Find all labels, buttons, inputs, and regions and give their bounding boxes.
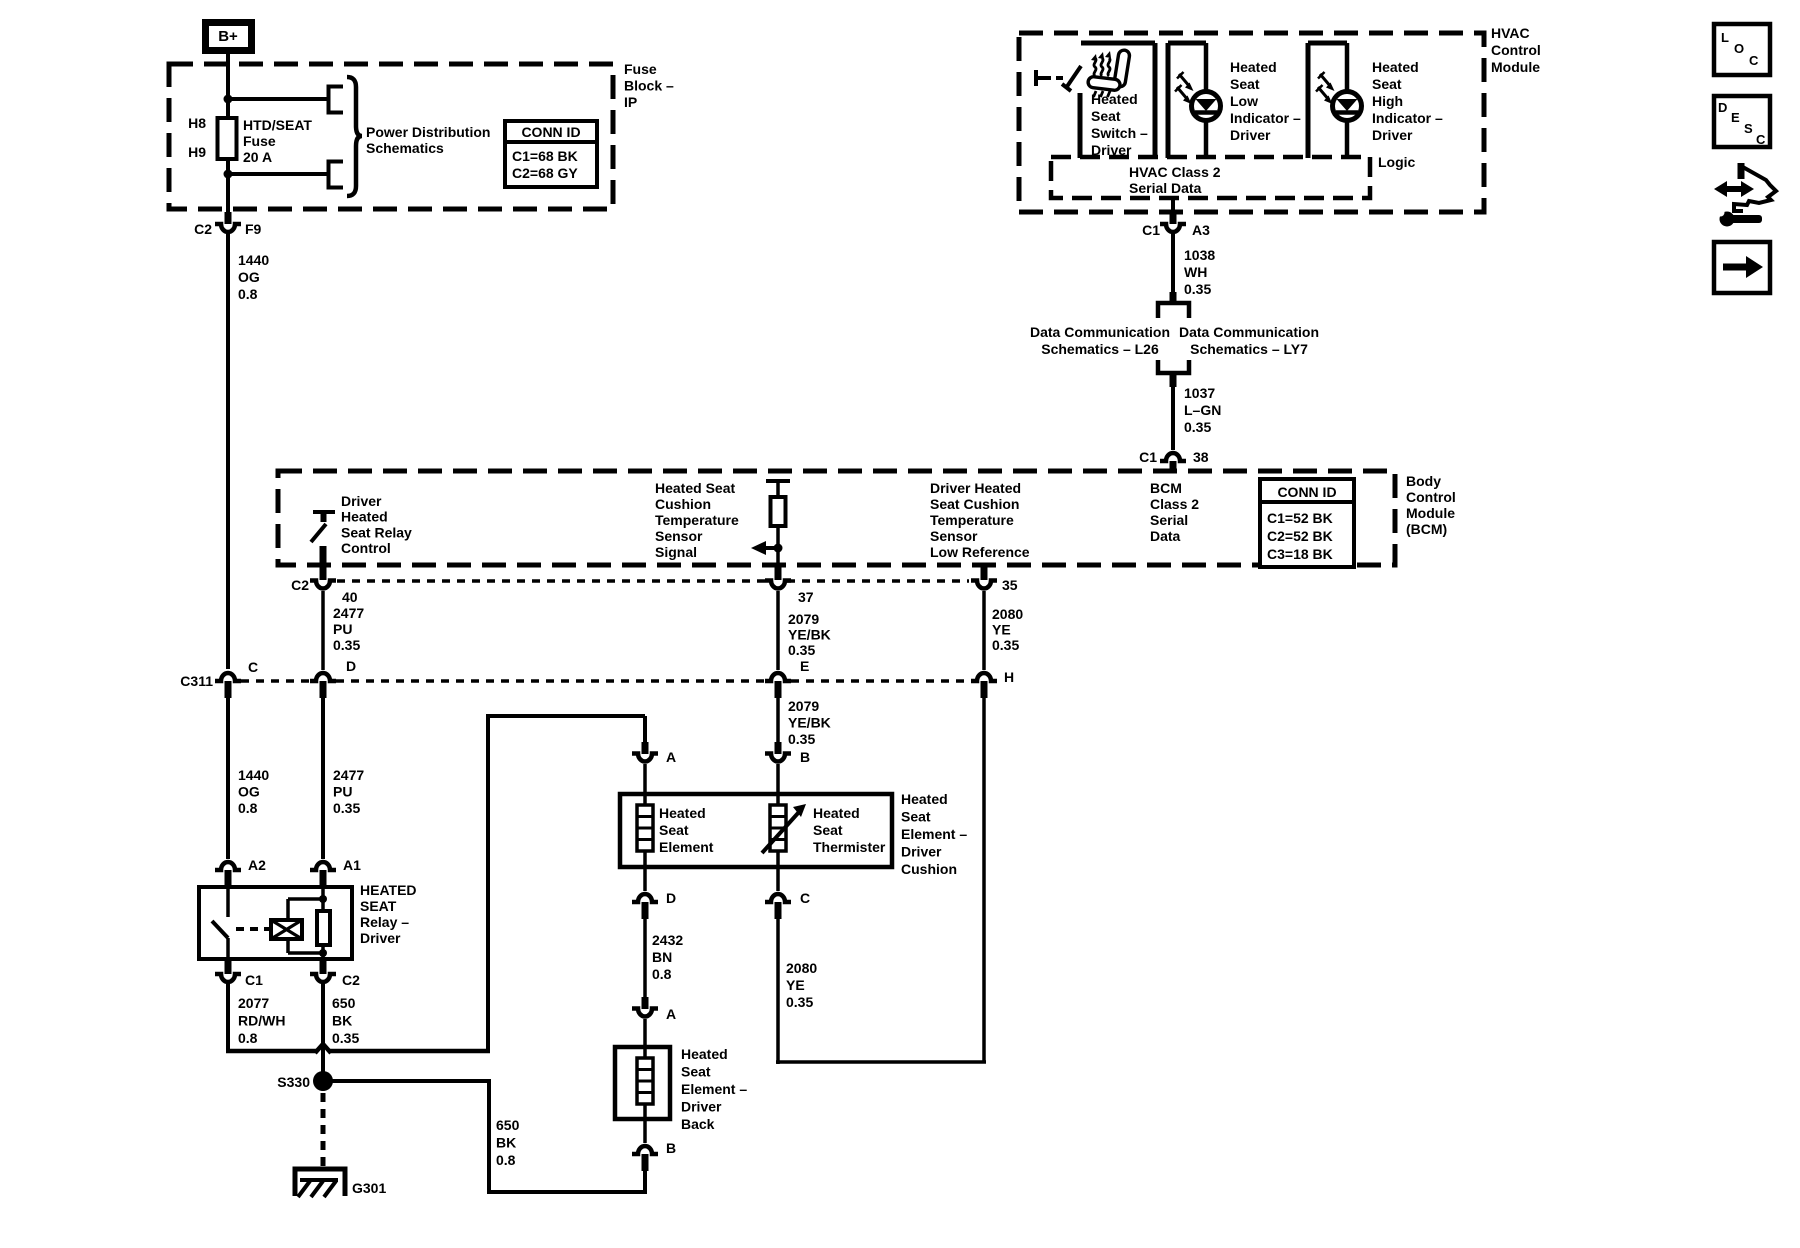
svg-text:WH: WH xyxy=(1184,264,1207,280)
svg-text:Schematics – LY7: Schematics – LY7 xyxy=(1190,341,1308,357)
svg-text:0.35: 0.35 xyxy=(333,637,360,653)
svg-text:Heated: Heated xyxy=(1372,59,1419,75)
svg-text:0.35: 0.35 xyxy=(788,642,815,658)
svg-text:Heated: Heated xyxy=(681,1046,728,1062)
svg-text:Data Communication: Data Communication xyxy=(1030,324,1170,340)
svg-text:BK: BK xyxy=(496,1135,516,1151)
svg-text:0.35: 0.35 xyxy=(1184,281,1211,297)
svg-text:Logic: Logic xyxy=(1378,154,1416,170)
svg-text:O: O xyxy=(1734,41,1744,56)
svg-text:Driver Heated: Driver Heated xyxy=(930,480,1021,496)
svg-text:Serial: Serial xyxy=(1150,512,1188,528)
svg-text:0.8: 0.8 xyxy=(652,966,672,982)
svg-text:2080: 2080 xyxy=(786,960,817,976)
svg-text:A: A xyxy=(666,749,676,765)
svg-text:Sensor: Sensor xyxy=(655,528,703,544)
svg-text:1038: 1038 xyxy=(1184,247,1215,263)
svg-text:BK: BK xyxy=(332,1013,352,1029)
svg-text:YE: YE xyxy=(992,622,1011,638)
svg-text:Temperature: Temperature xyxy=(655,512,739,528)
svg-text:YE: YE xyxy=(786,977,805,993)
svg-text:A1: A1 xyxy=(343,857,361,873)
svg-text:Seat: Seat xyxy=(813,822,843,838)
svg-text:C2=52 BK: C2=52 BK xyxy=(1267,528,1333,544)
svg-text:Seat: Seat xyxy=(681,1064,711,1080)
svg-text:HEATED: HEATED xyxy=(360,882,417,898)
svg-text:D: D xyxy=(1718,100,1727,115)
svg-text:Seat Cushion: Seat Cushion xyxy=(930,496,1019,512)
svg-text:0.8: 0.8 xyxy=(238,1030,258,1046)
svg-text:Temperature: Temperature xyxy=(930,512,1014,528)
svg-text:Relay –: Relay – xyxy=(360,914,409,930)
svg-text:(BCM): (BCM) xyxy=(1406,521,1447,537)
svg-text:Driver: Driver xyxy=(360,930,401,946)
svg-text:G301: G301 xyxy=(352,1180,386,1196)
svg-text:HTD/SEAT: HTD/SEAT xyxy=(243,117,312,133)
svg-text:E: E xyxy=(800,658,809,674)
svg-text:0.35: 0.35 xyxy=(788,731,815,747)
svg-text:Schematics – L26: Schematics – L26 xyxy=(1041,341,1159,357)
svg-text:Thermister: Thermister xyxy=(813,839,886,855)
svg-text:YE/BK: YE/BK xyxy=(788,715,831,731)
svg-text:1440: 1440 xyxy=(238,767,269,783)
svg-text:0.35: 0.35 xyxy=(333,800,360,816)
svg-text:BCM: BCM xyxy=(1150,480,1182,496)
svg-text:Seat: Seat xyxy=(659,822,689,838)
svg-text:C311: C311 xyxy=(180,673,213,689)
svg-text:L–GN: L–GN xyxy=(1184,402,1221,418)
svg-text:Heated: Heated xyxy=(813,805,860,821)
svg-text:A2: A2 xyxy=(248,857,266,873)
svg-text:Heated Seat: Heated Seat xyxy=(655,480,735,496)
svg-text:0.35: 0.35 xyxy=(1184,419,1211,435)
svg-text:38: 38 xyxy=(1193,449,1209,465)
svg-text:Module: Module xyxy=(1491,59,1540,75)
svg-text:C1: C1 xyxy=(245,972,263,988)
svg-text:650: 650 xyxy=(496,1117,520,1133)
svg-text:Element –: Element – xyxy=(901,826,967,842)
svg-text:Seat: Seat xyxy=(1372,76,1402,92)
svg-text:Heated: Heated xyxy=(1091,91,1138,107)
svg-text:B+: B+ xyxy=(218,28,238,45)
svg-text:PU: PU xyxy=(333,784,352,800)
svg-text:Indicator –: Indicator – xyxy=(1230,110,1301,126)
svg-text:35: 35 xyxy=(1002,577,1018,593)
svg-text:1037: 1037 xyxy=(1184,385,1215,401)
svg-text:2077: 2077 xyxy=(238,995,269,1011)
svg-text:B: B xyxy=(666,1140,676,1156)
svg-text:C2: C2 xyxy=(194,221,212,237)
svg-text:Heated: Heated xyxy=(1230,59,1277,75)
svg-text:Element: Element xyxy=(659,839,714,855)
svg-text:2080: 2080 xyxy=(992,606,1023,622)
svg-text:C: C xyxy=(1749,53,1759,68)
svg-text:0.8: 0.8 xyxy=(238,800,258,816)
svg-text:H9: H9 xyxy=(188,144,206,160)
svg-text:Seat Relay: Seat Relay xyxy=(341,524,412,540)
svg-text:Control: Control xyxy=(341,540,391,556)
svg-text:OG: OG xyxy=(238,784,260,800)
svg-text:IP: IP xyxy=(624,94,637,110)
svg-text:D: D xyxy=(346,658,356,674)
svg-text:2079: 2079 xyxy=(788,698,819,714)
svg-text:40: 40 xyxy=(342,589,358,605)
svg-text:C1: C1 xyxy=(1142,222,1160,238)
svg-text:PU: PU xyxy=(333,621,352,637)
svg-text:Data: Data xyxy=(1150,528,1181,544)
svg-text:Driver: Driver xyxy=(681,1099,722,1115)
svg-text:C: C xyxy=(800,890,810,906)
svg-text:Signal: Signal xyxy=(655,544,697,560)
svg-text:Back: Back xyxy=(681,1116,715,1132)
svg-text:High: High xyxy=(1372,93,1403,109)
svg-text:1440: 1440 xyxy=(238,252,269,268)
svg-text:C1=52 BK: C1=52 BK xyxy=(1267,510,1333,526)
svg-text:20 A: 20 A xyxy=(243,149,272,165)
svg-text:E: E xyxy=(1731,110,1740,125)
svg-text:Power Distribution: Power Distribution xyxy=(366,124,490,140)
svg-text:37: 37 xyxy=(798,589,814,605)
svg-text:OG: OG xyxy=(238,269,260,285)
svg-text:Indicator –: Indicator – xyxy=(1372,110,1443,126)
svg-text:C: C xyxy=(1756,132,1766,147)
svg-text:C1: C1 xyxy=(1139,449,1157,465)
svg-text:Heated: Heated xyxy=(341,509,388,525)
svg-text:A: A xyxy=(666,1006,676,1022)
svg-text:2477: 2477 xyxy=(333,767,364,783)
svg-text:C2: C2 xyxy=(342,972,360,988)
svg-text:Heated: Heated xyxy=(901,791,948,807)
svg-text:Body: Body xyxy=(1406,473,1441,489)
svg-text:Data Communication: Data Communication xyxy=(1179,324,1319,340)
svg-text:Seat: Seat xyxy=(1230,76,1260,92)
svg-text:S330: S330 xyxy=(277,1074,310,1090)
svg-text:Control: Control xyxy=(1491,42,1541,58)
svg-text:Driver: Driver xyxy=(341,493,382,509)
svg-text:RD/WH: RD/WH xyxy=(238,1013,285,1029)
svg-text:Control: Control xyxy=(1406,489,1456,505)
svg-text:B: B xyxy=(800,749,810,765)
svg-text:BN: BN xyxy=(652,949,672,965)
svg-text:C: C xyxy=(248,659,258,675)
svg-text:C2: C2 xyxy=(291,577,309,593)
svg-text:Low: Low xyxy=(1230,93,1258,109)
svg-text:S: S xyxy=(1744,121,1753,136)
svg-text:2477: 2477 xyxy=(333,605,364,621)
svg-text:Seat: Seat xyxy=(1091,108,1121,124)
svg-text:Driver: Driver xyxy=(1230,127,1271,143)
svg-text:H: H xyxy=(1004,669,1014,685)
svg-text:C2=68 GY: C2=68 GY xyxy=(512,165,578,181)
svg-text:Module: Module xyxy=(1406,505,1455,521)
svg-text:CONN ID: CONN ID xyxy=(521,124,580,140)
svg-text:Schematics: Schematics xyxy=(366,140,444,156)
svg-text:Fuse: Fuse xyxy=(243,133,276,149)
svg-text:650: 650 xyxy=(332,995,356,1011)
svg-text:0.35: 0.35 xyxy=(332,1030,359,1046)
svg-text:Low Reference: Low Reference xyxy=(930,544,1030,560)
svg-text:2432: 2432 xyxy=(652,932,683,948)
svg-text:SEAT: SEAT xyxy=(360,898,397,914)
svg-text:L: L xyxy=(1721,30,1729,45)
svg-text:Driver: Driver xyxy=(901,844,942,860)
svg-text:D: D xyxy=(666,890,676,906)
svg-text:Seat: Seat xyxy=(901,809,931,825)
svg-text:F9: F9 xyxy=(245,221,262,237)
svg-text:YE/BK: YE/BK xyxy=(788,627,831,643)
svg-text:Block –: Block – xyxy=(624,78,674,94)
svg-text:Element –: Element – xyxy=(681,1081,747,1097)
svg-text:Serial Data: Serial Data xyxy=(1129,180,1202,196)
svg-text:0.35: 0.35 xyxy=(786,994,813,1010)
svg-text:0.8: 0.8 xyxy=(238,286,258,302)
svg-text:Class 2: Class 2 xyxy=(1150,496,1199,512)
svg-text:Sensor: Sensor xyxy=(930,528,978,544)
svg-text:H8: H8 xyxy=(188,115,206,131)
svg-text:C3=18 BK: C3=18 BK xyxy=(1267,546,1333,562)
svg-text:0.8: 0.8 xyxy=(496,1152,516,1168)
svg-text:0.35: 0.35 xyxy=(992,637,1019,653)
svg-text:A3: A3 xyxy=(1192,222,1210,238)
svg-text:HVAC: HVAC xyxy=(1491,25,1530,41)
svg-text:CONN ID: CONN ID xyxy=(1277,484,1336,500)
svg-text:C1=68 BK: C1=68 BK xyxy=(512,148,578,164)
svg-text:2079: 2079 xyxy=(788,611,819,627)
svg-text:Heated: Heated xyxy=(659,805,706,821)
svg-text:Fuse: Fuse xyxy=(624,61,657,77)
svg-text:Driver: Driver xyxy=(1372,127,1413,143)
svg-text:Switch –: Switch – xyxy=(1091,125,1148,141)
svg-text:Cushion: Cushion xyxy=(655,496,711,512)
svg-text:Cushion: Cushion xyxy=(901,861,957,877)
svg-text:HVAC Class 2: HVAC Class 2 xyxy=(1129,164,1221,180)
